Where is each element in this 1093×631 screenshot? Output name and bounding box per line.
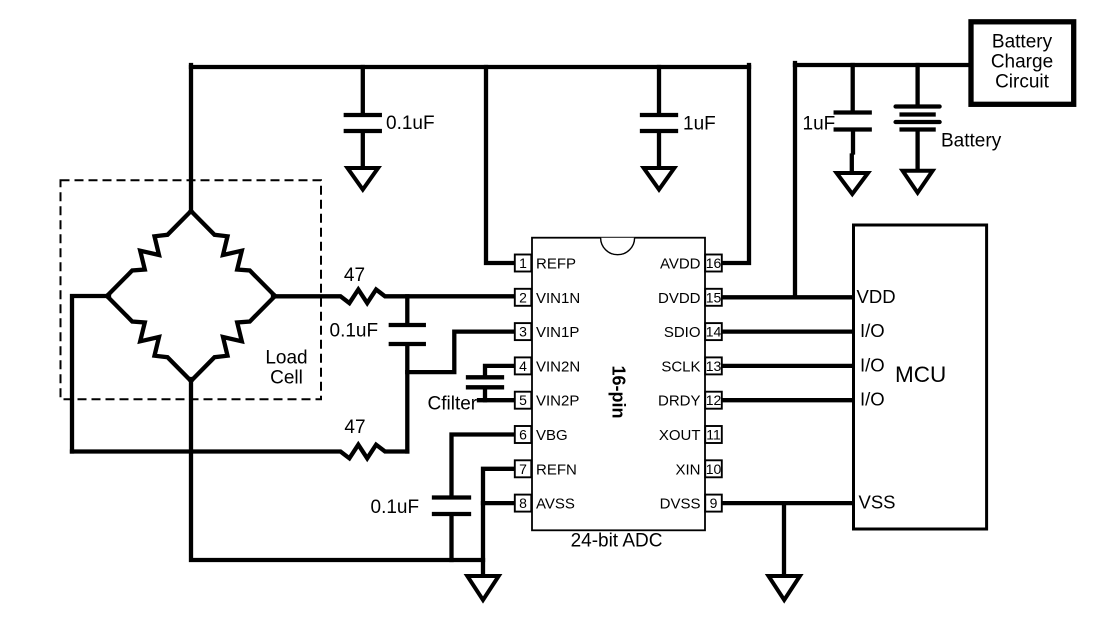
svg-text:9: 9: [710, 495, 718, 511]
svg-text:Cfilter: Cfilter: [428, 394, 478, 415]
svg-text:Load: Load: [265, 347, 307, 368]
svg-text:12: 12: [706, 392, 722, 408]
svg-text:47: 47: [344, 417, 365, 438]
svg-text:0.1uF: 0.1uF: [386, 113, 435, 134]
svg-text:SDIO: SDIO: [664, 324, 701, 341]
svg-text:1uF: 1uF: [683, 114, 716, 135]
svg-text:4: 4: [519, 358, 527, 374]
svg-text:VDD: VDD: [857, 286, 896, 307]
svg-text:0.1uF: 0.1uF: [371, 497, 420, 518]
svg-text:AVDD: AVDD: [660, 256, 701, 273]
svg-text:VIN1P: VIN1P: [536, 324, 579, 341]
svg-text:16-pin: 16-pin: [609, 365, 629, 418]
svg-text:15: 15: [706, 289, 722, 305]
svg-text:XIN: XIN: [675, 461, 700, 478]
svg-text:6: 6: [519, 427, 527, 443]
svg-text:0.1uF: 0.1uF: [330, 321, 379, 342]
svg-text:VIN1N: VIN1N: [536, 290, 580, 307]
svg-text:10: 10: [706, 461, 722, 477]
svg-text:24-bit ADC: 24-bit ADC: [571, 531, 663, 552]
svg-text:DRDY: DRDY: [658, 393, 701, 410]
svg-text:47: 47: [344, 265, 365, 286]
svg-text:SCLK: SCLK: [661, 358, 700, 375]
svg-text:AVSS: AVSS: [536, 496, 575, 513]
svg-text:I/O: I/O: [860, 354, 885, 375]
svg-text:XOUT: XOUT: [659, 427, 701, 444]
svg-text:14: 14: [706, 324, 722, 340]
svg-text:11: 11: [706, 427, 721, 443]
svg-text:REFN: REFN: [536, 461, 577, 478]
svg-text:Circuit: Circuit: [995, 71, 1050, 92]
svg-text:2: 2: [519, 289, 527, 305]
svg-text:7: 7: [519, 461, 527, 477]
svg-text:MCU: MCU: [895, 362, 946, 387]
svg-text:13: 13: [706, 358, 722, 374]
svg-text:8: 8: [519, 495, 527, 511]
svg-text:5: 5: [519, 392, 527, 408]
svg-text:VIN2N: VIN2N: [536, 358, 580, 375]
svg-text:REFP: REFP: [536, 256, 576, 273]
svg-text:Cell: Cell: [270, 368, 303, 389]
svg-text:Charge: Charge: [991, 52, 1053, 73]
svg-text:I/O: I/O: [860, 320, 885, 341]
svg-text:3: 3: [519, 324, 527, 340]
svg-text:1uF: 1uF: [803, 114, 836, 135]
svg-text:VSS: VSS: [859, 492, 896, 513]
svg-text:DVSS: DVSS: [660, 496, 701, 513]
svg-text:16: 16: [706, 255, 722, 271]
svg-text:VBG: VBG: [536, 427, 568, 444]
svg-text:DVDD: DVDD: [658, 290, 701, 307]
svg-text:1: 1: [519, 255, 527, 271]
svg-text:VIN2P: VIN2P: [536, 393, 579, 410]
svg-text:Battery: Battery: [992, 32, 1053, 53]
svg-text:Battery: Battery: [941, 130, 1002, 151]
svg-text:I/O: I/O: [860, 389, 885, 410]
